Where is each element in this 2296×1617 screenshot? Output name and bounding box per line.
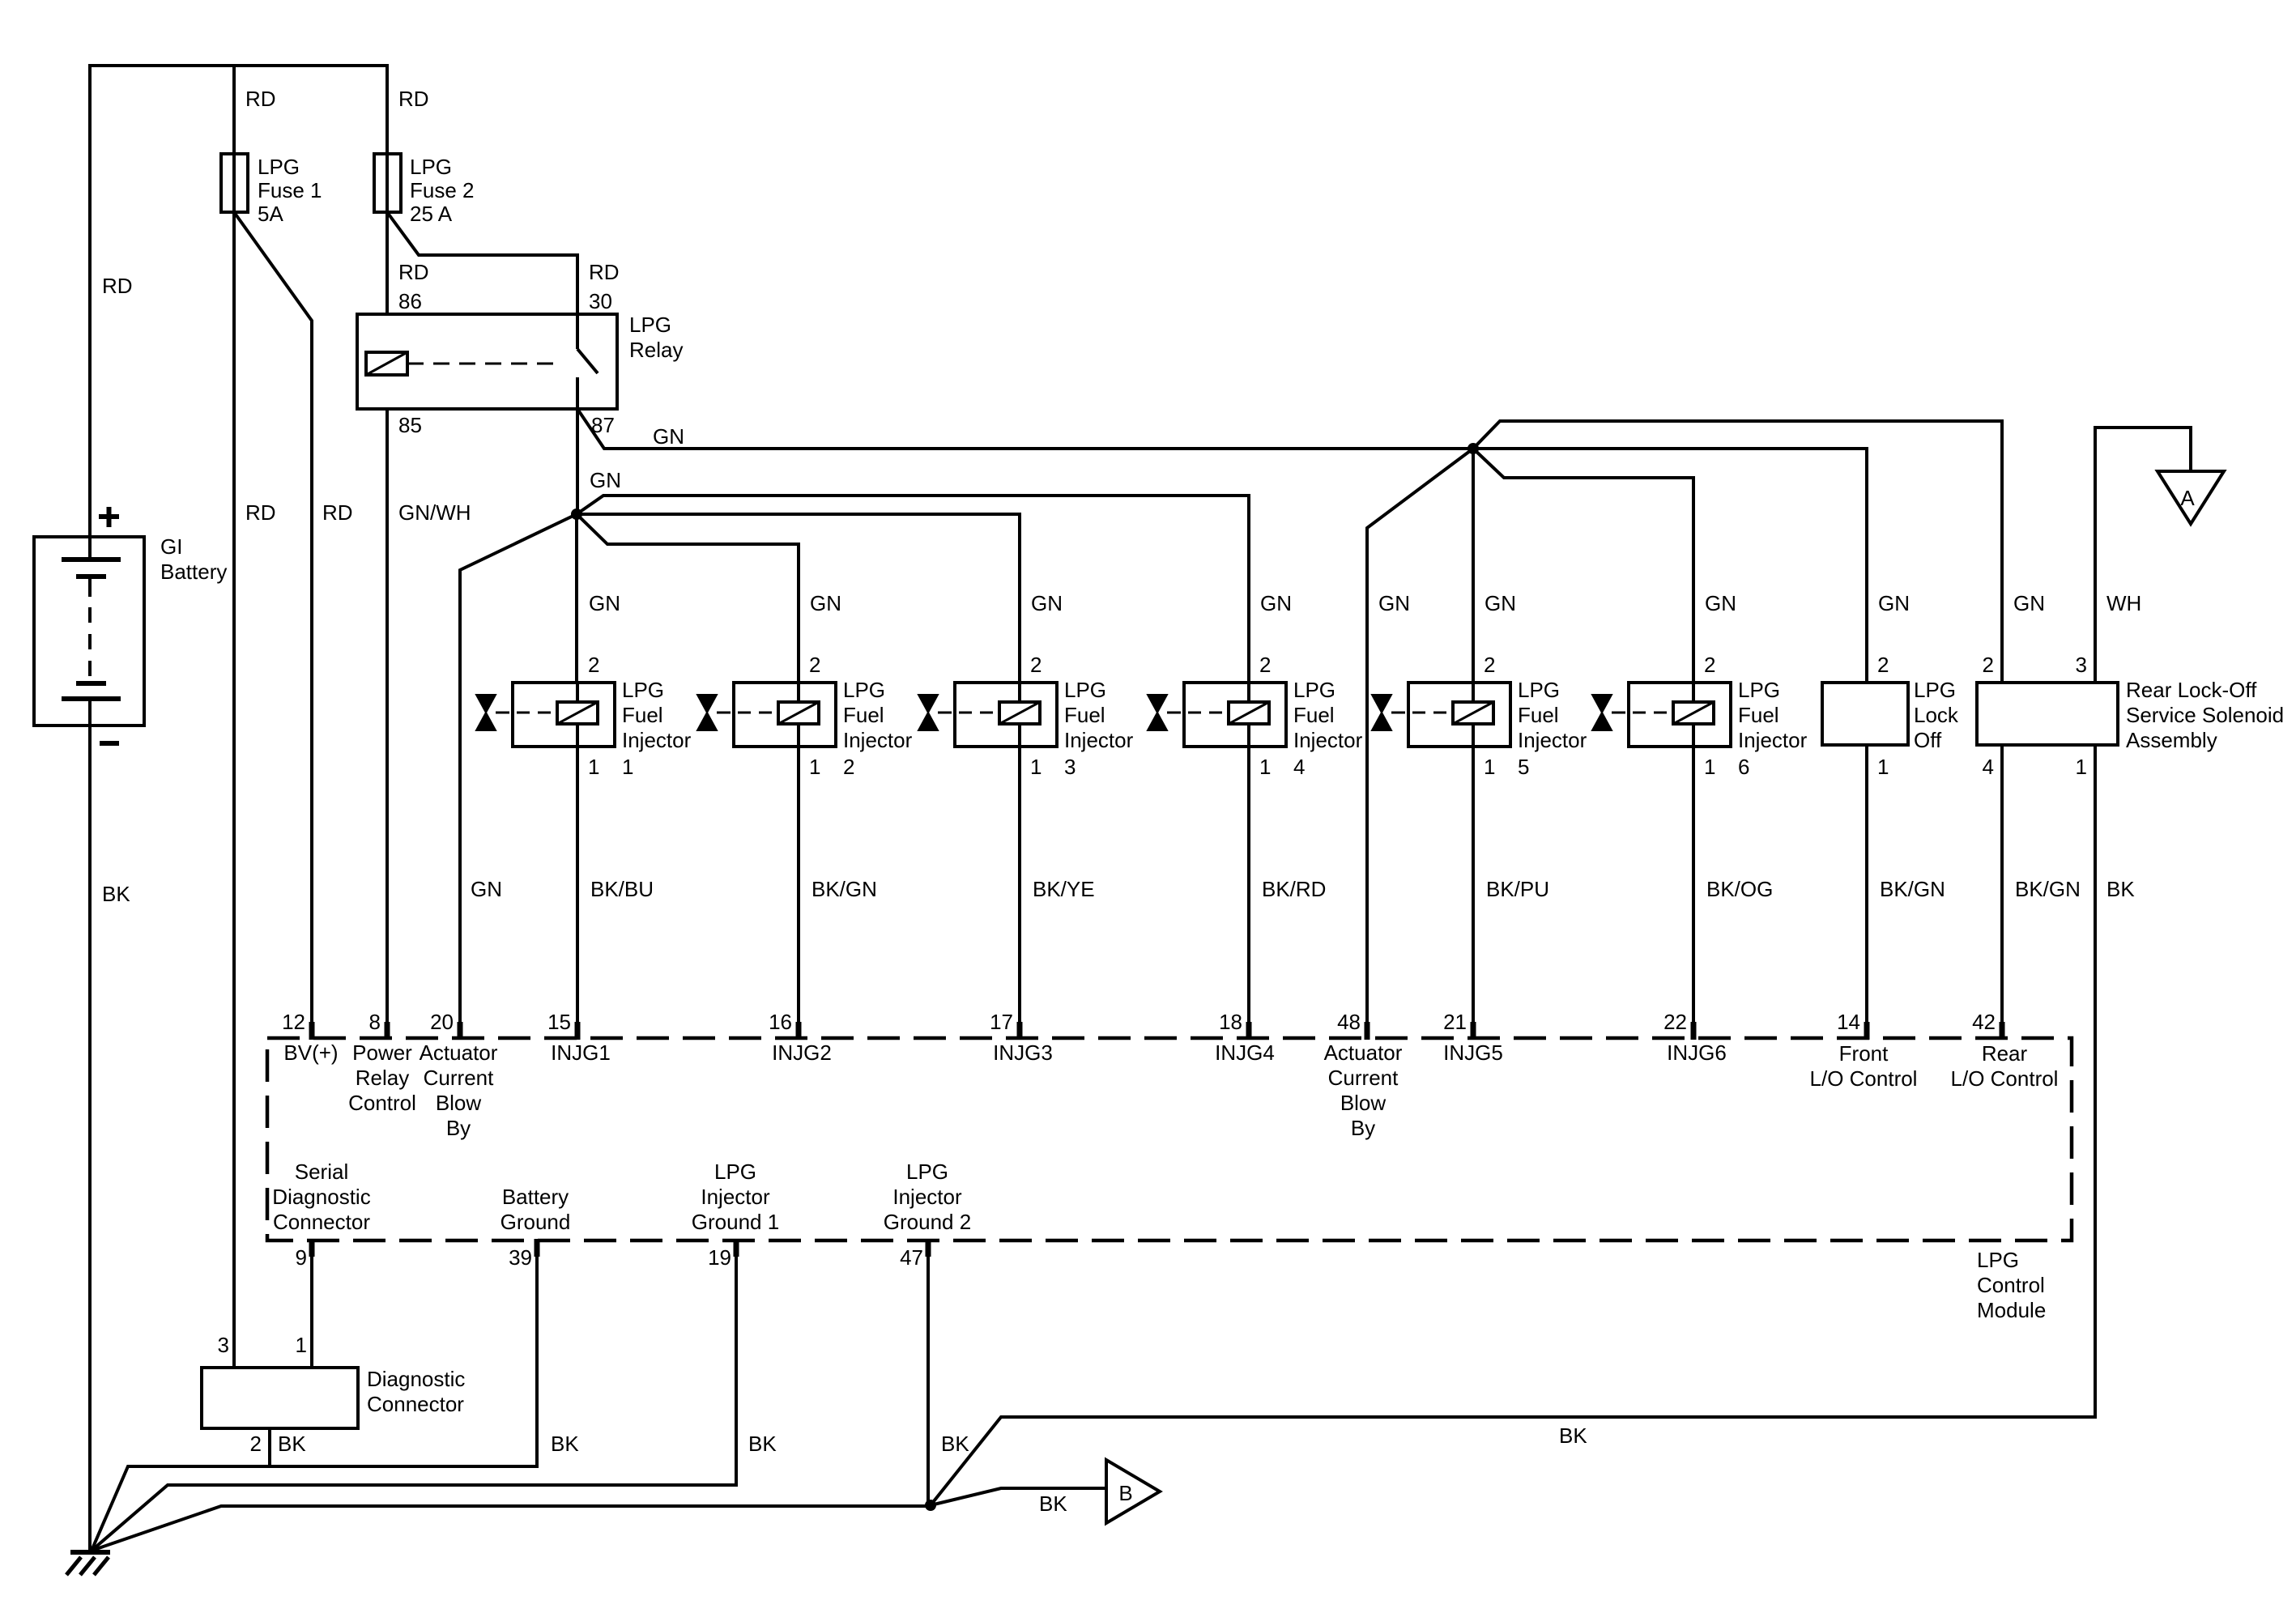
svg-text:GN: GN: [590, 468, 621, 492]
svg-text:Serial: Serial: [295, 1160, 348, 1184]
svg-text:3: 3: [1064, 755, 1076, 779]
svg-text:INJG5: INJG5: [1443, 1040, 1503, 1065]
svg-text:22: 22: [1663, 1010, 1687, 1034]
svg-text:Front: Front: [1839, 1041, 1889, 1066]
svg-text:86: 86: [398, 289, 422, 313]
svg-text:3: 3: [2076, 653, 2087, 677]
svg-text:1: 1: [1259, 755, 1271, 779]
svg-text:LPG: LPG: [1914, 678, 1956, 702]
svg-text:BV(+): BV(+): [283, 1040, 338, 1065]
injector LPG Fuel Injector 2: [734, 683, 836, 747]
svg-text:INJG4: INJG4: [1215, 1040, 1275, 1065]
svg-text:GN: GN: [653, 424, 684, 449]
svg-text:Relay: Relay: [356, 1066, 409, 1090]
wire WH rear lock-off pin 3 to connector A: [2095, 428, 2191, 683]
svg-text:30: 30: [589, 289, 612, 313]
wire GN J1 to module pin 20: [460, 514, 577, 1038]
wire RD fuse2 to relay pin 86: [386, 212, 389, 314]
injector LPG Fuel Injector 1: [513, 683, 615, 747]
svg-text:5A: 5A: [258, 202, 283, 226]
svg-text:INJG6: INJG6: [1667, 1040, 1727, 1065]
svg-text:1: 1: [1704, 755, 1715, 779]
svg-text:RD: RD: [398, 87, 429, 111]
svg-text:2: 2: [1030, 653, 1042, 677]
wire fuse1 drop: [232, 66, 236, 154]
svg-text:LPG: LPG: [843, 678, 885, 702]
svg-text:Lock: Lock: [1914, 703, 1959, 727]
svg-text:1: 1: [588, 755, 599, 779]
svg-text:Connector: Connector: [367, 1392, 464, 1416]
wire BK/PU injector 5 to module: [1472, 747, 1475, 1038]
svg-text:Fuse 2: Fuse 2: [410, 178, 475, 202]
svg-text:4: 4: [1293, 755, 1305, 779]
wire BK module pin 47 injector ground 2: [926, 1240, 930, 1505]
svg-text:GN: GN: [471, 877, 502, 901]
svg-text:By: By: [446, 1116, 471, 1140]
svg-text:6: 6: [1738, 755, 1749, 779]
svg-text:GN/WH: GN/WH: [398, 500, 471, 525]
svg-text:85: 85: [398, 413, 422, 437]
wire RD fuse1 to module pin 12: [234, 212, 312, 1038]
ground chassis symbol: [70, 1550, 110, 1555]
wire GN/WH relay 85 to module pin 8: [386, 409, 389, 1038]
svg-text:WH: WH: [2106, 591, 2141, 615]
svg-text:Power: Power: [352, 1040, 412, 1065]
svg-text:Fuel: Fuel: [622, 703, 663, 727]
svg-text:LPG: LPG: [1738, 678, 1780, 702]
svg-text:2: 2: [1704, 653, 1715, 677]
svg-text:L/O Control: L/O Control: [1810, 1066, 1918, 1091]
fuse LPG Fuse 1 5A: [232, 154, 236, 212]
svg-text:LPG: LPG: [1977, 1248, 2019, 1272]
svg-text:2: 2: [843, 755, 854, 779]
svg-text:INJG1: INJG1: [551, 1040, 611, 1065]
svg-text:Service Solenoid: Service Solenoid: [2126, 703, 2284, 727]
wire GN J1 to injector 4: [577, 496, 1249, 683]
svg-text:2: 2: [250, 1432, 262, 1456]
svg-text:BK/GN: BK/GN: [2015, 877, 2081, 901]
svg-text:LPG: LPG: [1293, 678, 1335, 702]
svg-text:BK/GN: BK/GN: [811, 877, 877, 901]
solenoid LPG Lock Off: [1822, 683, 1908, 745]
svg-text:2: 2: [1259, 653, 1271, 677]
svg-text:INJG2: INJG2: [772, 1040, 832, 1065]
svg-text:48: 48: [1337, 1010, 1361, 1034]
svg-text:2: 2: [1484, 653, 1495, 677]
node module pin tabs: [309, 1022, 315, 1040]
svg-text:Fuel: Fuel: [1064, 703, 1105, 727]
svg-text:GN: GN: [2013, 591, 2045, 615]
wire GN J1 to injector 1: [575, 514, 578, 683]
wire BK ground to junction J3: [92, 1506, 931, 1551]
svg-text:Blow: Blow: [1340, 1091, 1387, 1115]
svg-text:BK: BK: [941, 1432, 969, 1456]
injector LPG Fuel Injector 4: [1184, 683, 1286, 747]
svg-text:LPG: LPG: [1064, 678, 1106, 702]
svg-text:LPG: LPG: [714, 1160, 756, 1184]
svg-text:1: 1: [809, 755, 820, 779]
svg-text:BK/BU: BK/BU: [590, 877, 654, 901]
svg-text:By: By: [1351, 1116, 1375, 1140]
svg-text:Assembly: Assembly: [2126, 728, 2217, 752]
svg-text:BK: BK: [278, 1432, 306, 1456]
injector LPG Fuel Injector 6: [1629, 683, 1731, 747]
svg-text:L/O Control: L/O Control: [1951, 1066, 2059, 1091]
svg-text:INJG3: INJG3: [993, 1040, 1053, 1065]
wire BK/YE injector 3 to module: [1018, 747, 1021, 1038]
svg-text:GN: GN: [1260, 591, 1292, 615]
wire BK battery negative to ground: [88, 726, 92, 1551]
svg-text:Blow: Blow: [436, 1091, 482, 1115]
module LPG Control Module dashed box: [267, 1038, 2072, 1240]
wire GN J2 to module pin 48: [1367, 449, 1473, 1038]
svg-text:17: 17: [990, 1010, 1013, 1034]
wire GN J2 to injector 5: [1472, 449, 1475, 683]
svg-text:Battery: Battery: [160, 560, 227, 584]
svg-text:Ground: Ground: [501, 1210, 571, 1234]
svg-text:BK: BK: [1039, 1491, 1067, 1516]
svg-text:1: 1: [296, 1333, 307, 1357]
svg-text:12: 12: [282, 1010, 305, 1034]
wire module pin 9 to diagnostic connector pin 1: [310, 1240, 313, 1368]
svg-text:BK: BK: [2106, 877, 2135, 901]
svg-text:39: 39: [509, 1245, 532, 1270]
svg-text:1: 1: [1877, 755, 1889, 779]
svg-text:BK/PU: BK/PU: [1486, 877, 1549, 901]
svg-text:Fuel: Fuel: [1738, 703, 1779, 727]
wire RD fuse1 to diagnostic connector: [232, 212, 236, 1368]
svg-text:3: 3: [218, 1333, 229, 1357]
wire BK J3 to connector B: [931, 1488, 1106, 1505]
svg-text:2: 2: [809, 653, 820, 677]
wire GN relay 87 down to junction: [576, 409, 579, 514]
svg-text:GN: GN: [1485, 591, 1516, 615]
svg-text:BK: BK: [748, 1432, 777, 1456]
svg-text:Ground 2: Ground 2: [884, 1210, 971, 1234]
svg-text:LPG: LPG: [906, 1160, 948, 1184]
injector LPG Fuel Injector 5: [1408, 683, 1510, 747]
svg-text:BK/GN: BK/GN: [1880, 877, 1945, 901]
wire GN J2 to rear lock-off pin 2: [1473, 421, 2002, 683]
svg-text:42: 42: [1972, 1010, 1996, 1034]
svg-text:B: B: [1118, 1481, 1132, 1505]
svg-text:2: 2: [1877, 653, 1889, 677]
svg-text:Fuse 1: Fuse 1: [258, 178, 322, 202]
svg-text:Injector: Injector: [1518, 728, 1587, 752]
svg-text:Actuator: Actuator: [1324, 1040, 1403, 1065]
svg-text:GI: GI: [160, 534, 182, 559]
svg-text:Injector: Injector: [843, 728, 913, 752]
svg-text:Battery: Battery: [502, 1185, 569, 1209]
svg-text:4: 4: [1983, 755, 1994, 779]
svg-text:A: A: [2180, 486, 2195, 510]
svg-text:Off: Off: [1914, 728, 1942, 752]
wire BK/RD injector 4 to module: [1247, 747, 1250, 1038]
svg-text:Relay: Relay: [629, 338, 683, 362]
svg-text:RD: RD: [245, 500, 276, 525]
wire GN J1 to injector 2: [577, 514, 799, 683]
svg-text:2: 2: [588, 653, 599, 677]
svg-text:14: 14: [1837, 1010, 1860, 1034]
wire BK/BU injector 1 to module: [576, 747, 579, 1038]
junction J2: [1467, 443, 1479, 454]
wire BK/OG injector 6 to module: [1692, 747, 1695, 1038]
svg-text:8: 8: [369, 1010, 381, 1034]
svg-text:LPG: LPG: [258, 155, 300, 179]
svg-text:1: 1: [1484, 755, 1495, 779]
svg-text:BK: BK: [102, 882, 130, 906]
svg-text:LPG: LPG: [622, 678, 664, 702]
svg-text:LPG: LPG: [629, 313, 671, 337]
connector B triangle: [1106, 1460, 1160, 1523]
svg-text:Fuel: Fuel: [1293, 703, 1335, 727]
svg-text:Actuator: Actuator: [420, 1040, 498, 1065]
svg-text:Fuel: Fuel: [843, 703, 884, 727]
svg-text:GN: GN: [1878, 591, 1910, 615]
solenoid Rear Lock-Off Service Solenoid Assembly: [1977, 683, 2118, 745]
svg-text:GN: GN: [1031, 591, 1063, 615]
svg-text:Ground 1: Ground 1: [692, 1210, 779, 1234]
svg-text:Control: Control: [1977, 1273, 2045, 1297]
svg-text:Control: Control: [348, 1091, 416, 1115]
junction J1: [571, 509, 582, 520]
svg-text:BK/OG: BK/OG: [1706, 877, 1773, 901]
svg-text:BK: BK: [1559, 1423, 1587, 1448]
svg-text:Module: Module: [1977, 1298, 2046, 1322]
svg-text:16: 16: [769, 1010, 792, 1034]
svg-text:Current: Current: [424, 1066, 494, 1090]
svg-text:9: 9: [296, 1245, 307, 1270]
svg-text:BK/YE: BK/YE: [1033, 877, 1095, 901]
svg-text:Injector: Injector: [1293, 728, 1363, 752]
wire BK/GN injector 2 to module: [797, 747, 800, 1038]
svg-text:Diagnostic: Diagnostic: [367, 1367, 465, 1391]
svg-text:2: 2: [1983, 653, 1994, 677]
connector A triangle: [2158, 471, 2224, 524]
svg-text:RD: RD: [245, 87, 276, 111]
svg-text:47: 47: [900, 1245, 923, 1270]
battery GI Battery: [34, 537, 144, 726]
wire GN J2 to injector 6: [1473, 449, 1693, 683]
relay K1 LPG Relay: [357, 314, 617, 409]
svg-text:Fuel: Fuel: [1518, 703, 1559, 727]
svg-text:LPG: LPG: [410, 155, 452, 179]
injector LPG Fuel Injector 3: [955, 683, 1057, 747]
wire BK rear lock-off pin 1 to ground bus: [931, 745, 2095, 1505]
wire BK diagnostic connector pin 2: [268, 1428, 271, 1466]
svg-text:Injector: Injector: [892, 1185, 962, 1209]
wire BK/GN lock off pin 1 to module pin 14: [1865, 745, 1868, 1038]
svg-text:Connector: Connector: [273, 1210, 370, 1234]
junction J3: [925, 1500, 936, 1511]
wire GN J1 to injector 3: [577, 514, 1020, 683]
svg-text:RD: RD: [398, 260, 429, 284]
svg-text:GN: GN: [1705, 591, 1736, 615]
wire BK module pin 19 injector ground 1: [92, 1240, 736, 1551]
wire BK module pin 39 battery ground: [92, 1240, 537, 1551]
fuse LPG Fuse 2 25A: [386, 154, 389, 212]
wire GN relay 87 bus: [577, 409, 1867, 683]
svg-text:RD: RD: [102, 274, 133, 298]
svg-text:1: 1: [1030, 755, 1042, 779]
svg-text:1: 1: [622, 755, 633, 779]
svg-text:Diagnostic: Diagnostic: [272, 1185, 370, 1209]
svg-text:Injector: Injector: [1738, 728, 1808, 752]
svg-text:LPG: LPG: [1518, 678, 1560, 702]
connector Diagnostic Connector: [202, 1368, 358, 1428]
svg-text:20: 20: [430, 1010, 454, 1034]
svg-text:15: 15: [547, 1010, 571, 1034]
svg-text:25 A: 25 A: [410, 202, 453, 226]
wire top power bus RD: [90, 66, 387, 537]
svg-text:5: 5: [1518, 755, 1529, 779]
svg-text:Rear: Rear: [1982, 1041, 2028, 1066]
svg-text:1: 1: [2076, 755, 2087, 779]
svg-text:RD: RD: [589, 260, 620, 284]
svg-text:21: 21: [1443, 1010, 1467, 1034]
svg-text:18: 18: [1219, 1010, 1242, 1034]
svg-text:GN: GN: [810, 591, 841, 615]
svg-text:Current: Current: [1328, 1066, 1399, 1090]
svg-text:Injector: Injector: [622, 728, 692, 752]
svg-text:GN: GN: [1378, 591, 1410, 615]
svg-text:GN: GN: [589, 591, 620, 615]
svg-text:Injector: Injector: [1064, 728, 1134, 752]
svg-text:Injector: Injector: [701, 1185, 770, 1209]
svg-text:BK/RD: BK/RD: [1262, 877, 1326, 901]
svg-text:BK: BK: [551, 1432, 579, 1456]
svg-text:RD: RD: [322, 500, 353, 525]
wire RD fuse2 to relay pin 30: [387, 212, 577, 314]
wire BK/GN rear lock-off pin 4 to module pin 42: [2000, 745, 2004, 1038]
svg-text:Rear Lock-Off: Rear Lock-Off: [2126, 678, 2257, 702]
svg-text:19: 19: [708, 1245, 731, 1270]
